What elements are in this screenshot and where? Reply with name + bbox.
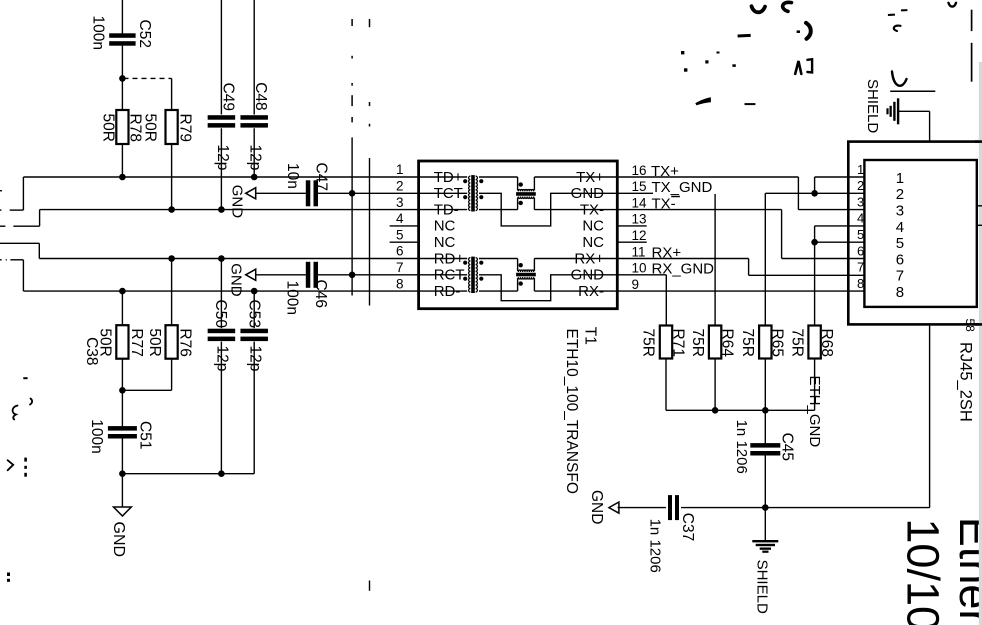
svg-text:1: 1 <box>857 162 864 177</box>
svg-text:Ethernet: Ethernet <box>950 517 982 625</box>
svg-text:R76: R76 <box>176 328 193 356</box>
svg-text:14: 14 <box>632 195 648 210</box>
svg-text:4: 4 <box>396 211 404 226</box>
svg-text:GND: GND <box>228 263 245 297</box>
svg-text:C47: C47 <box>312 163 329 191</box>
svg-text:11: 11 <box>632 244 646 259</box>
svg-text:75R: 75R <box>689 329 706 357</box>
svg-text:TX_GND: TX_GND <box>652 179 713 196</box>
svg-text:C37: C37 <box>679 513 696 541</box>
svg-text:GND: GND <box>110 522 127 558</box>
svg-text:15: 15 <box>632 179 647 194</box>
svg-text:1: 1 <box>396 162 404 177</box>
svg-text:5: 5 <box>857 227 864 242</box>
svg-text:10/100: 10/100 <box>898 518 949 625</box>
svg-text:R79: R79 <box>176 114 193 142</box>
svg-text:12p: 12p <box>214 145 231 171</box>
svg-text:ETH_GND: ETH_GND <box>806 376 823 448</box>
svg-text:RJ45_2SH: RJ45_2SH <box>956 342 974 422</box>
svg-text:16: 16 <box>632 163 647 178</box>
svg-text:C49: C49 <box>219 83 236 111</box>
svg-text:7: 7 <box>896 268 904 285</box>
svg-text:GND: GND <box>588 490 605 524</box>
svg-text:50R: 50R <box>100 114 117 142</box>
svg-text:NC: NC <box>582 218 604 235</box>
svg-text:50R: 50R <box>97 328 114 356</box>
svg-text:C46: C46 <box>312 280 329 308</box>
svg-text:4: 4 <box>896 219 904 236</box>
svg-text:7: 7 <box>857 260 864 275</box>
svg-text:10n: 10n <box>284 163 301 189</box>
svg-text:13: 13 <box>632 212 647 227</box>
svg-text:R68: R68 <box>818 329 835 357</box>
svg-text:12p: 12p <box>214 346 231 372</box>
svg-text:C50: C50 <box>212 300 229 329</box>
svg-text:C53: C53 <box>246 300 263 328</box>
svg-text:58: 58 <box>963 319 977 333</box>
svg-text:SHIELD: SHIELD <box>754 560 771 614</box>
svg-text:8: 8 <box>857 276 864 291</box>
svg-text:5: 5 <box>396 227 404 242</box>
svg-text:R65: R65 <box>769 329 786 357</box>
svg-text:6: 6 <box>396 244 404 259</box>
svg-text:2: 2 <box>396 179 404 194</box>
svg-text:4: 4 <box>857 211 864 226</box>
svg-text:1n 1206: 1n 1206 <box>733 420 750 474</box>
svg-text:9: 9 <box>632 277 640 292</box>
svg-text:12p: 12p <box>247 145 264 171</box>
svg-text:3: 3 <box>896 203 904 220</box>
svg-text:1n 1206: 1n 1206 <box>646 519 663 573</box>
svg-text:C52: C52 <box>136 20 153 48</box>
svg-text:8: 8 <box>396 276 404 291</box>
svg-text:NC: NC <box>434 234 456 251</box>
svg-text:75R: 75R <box>788 329 805 357</box>
svg-text:100n: 100n <box>284 281 301 315</box>
svg-text:2: 2 <box>896 186 904 203</box>
svg-text:1: 1 <box>896 170 904 187</box>
svg-text:C51: C51 <box>137 421 154 449</box>
svg-text:75R: 75R <box>640 329 657 357</box>
svg-text:10: 10 <box>632 261 647 276</box>
svg-text:SHIELD: SHIELD <box>864 79 881 133</box>
svg-text:100n: 100n <box>90 16 107 50</box>
svg-text:C45: C45 <box>778 433 795 461</box>
svg-text:R77: R77 <box>128 328 145 356</box>
svg-text:3: 3 <box>396 195 404 210</box>
svg-text:NC: NC <box>434 218 456 235</box>
svg-text:NC: NC <box>582 234 604 251</box>
svg-text:7: 7 <box>396 260 404 275</box>
svg-text:12p: 12p <box>247 346 264 372</box>
svg-text:R64: R64 <box>718 329 735 358</box>
svg-text:2: 2 <box>857 178 864 193</box>
svg-text:5: 5 <box>896 235 904 252</box>
svg-text:8: 8 <box>896 284 904 301</box>
svg-text:75R: 75R <box>739 329 756 357</box>
svg-text:ETH10_100_TRANSFO: ETH10_100_TRANSFO <box>563 329 580 494</box>
svg-text:T1: T1 <box>581 327 598 345</box>
svg-text:50R: 50R <box>141 114 158 142</box>
svg-text:GND: GND <box>229 185 246 219</box>
svg-text:C48: C48 <box>252 82 269 110</box>
svg-text:R78: R78 <box>127 114 144 142</box>
svg-text:50R: 50R <box>146 328 163 356</box>
svg-text:100n: 100n <box>88 419 105 453</box>
svg-text:R71: R71 <box>669 329 686 357</box>
svg-text:3: 3 <box>857 194 864 209</box>
svg-text:12: 12 <box>632 228 647 243</box>
svg-text:6: 6 <box>857 243 864 258</box>
svg-text:6: 6 <box>896 251 904 268</box>
